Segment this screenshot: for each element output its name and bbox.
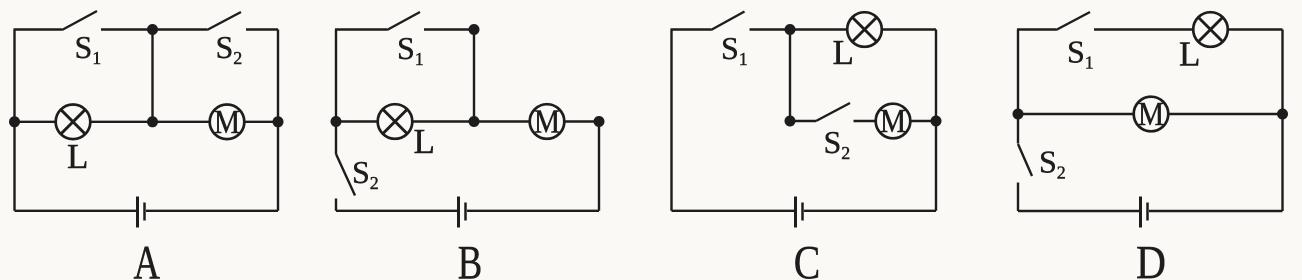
lamp L (D) — [1193, 12, 1228, 47]
wire center column C — [789, 30, 791, 122]
svg-text:M: M — [214, 104, 240, 141]
lamp L cross stroke 2 (B) — [383, 109, 408, 134]
battery short plate (C) — [801, 203, 804, 221]
wire top segment C1 — [671, 28, 712, 30]
wire top segment A2 — [101, 28, 207, 30]
svg-text:S1: S1 — [721, 30, 748, 69]
wire left rail A — [13, 30, 15, 211]
wire middle row B — [336, 120, 599, 122]
wire top segment C2 — [750, 28, 937, 30]
wire top segment D2 — [1094, 28, 1283, 30]
lamp L cross stroke 2 (A) — [61, 110, 86, 135]
motor M circle (B) — [530, 104, 565, 139]
wire bottom stub B — [335, 199, 337, 211]
svg-text:S2: S2 — [216, 29, 243, 68]
wire bottom stub D — [1017, 183, 1019, 212]
lamp L cross stroke 2 (C) — [852, 17, 877, 42]
node: top junction A — [147, 24, 158, 35]
node: top right B — [469, 24, 480, 35]
switch S1 blade (B) — [387, 12, 420, 30]
lamp L (A) — [56, 105, 91, 140]
svg-text:D: D — [1136, 238, 1166, 280]
wire center column A — [151, 30, 153, 122]
lamp L cross stroke 2 (D) — [1198, 17, 1223, 42]
wire bottom segment A1 — [15, 210, 137, 212]
wire middle row A — [15, 121, 279, 123]
wire bottom segment D2 — [1149, 210, 1283, 212]
switch S1 blade (C) — [711, 12, 745, 31]
wire right rail B — [598, 122, 600, 211]
switch S1 blade (A) — [62, 11, 97, 30]
node: left middle D — [1013, 109, 1024, 120]
node: left middle B — [331, 116, 342, 127]
wire middle row D — [1018, 113, 1283, 115]
svg-text:S2: S2 — [824, 124, 851, 163]
svg-text:M: M — [880, 103, 906, 140]
node: middle junction B — [469, 116, 480, 127]
switch S2 blade (D) — [1018, 144, 1032, 176]
node: left middle A — [9, 116, 20, 127]
wire right rail A — [277, 30, 279, 211]
lamp L (B) — [378, 104, 413, 139]
wire top segment A3 — [246, 28, 278, 30]
battery short plate (D) — [1146, 203, 1149, 221]
node: top junction C — [785, 24, 796, 35]
wire top segment B2 — [424, 28, 474, 30]
svg-text:L: L — [67, 137, 88, 176]
svg-text:B: B — [458, 238, 483, 280]
wire top segment B1 — [335, 28, 387, 30]
svg-text:M: M — [1138, 96, 1164, 133]
wire left rail top D — [1017, 30, 1019, 115]
node: right middle D — [1277, 109, 1288, 120]
wire bottom segment C2 — [804, 210, 936, 212]
switch S2 blade (B) — [336, 154, 355, 196]
battery short plate (B) — [464, 203, 467, 221]
switch S2 blade (A) — [207, 12, 241, 30]
wire left rail C — [670, 30, 672, 211]
switch S1 blade (D) — [1056, 12, 1090, 30]
wire left rail top B — [335, 30, 337, 122]
svg-text:S1: S1 — [397, 30, 424, 69]
node: middle junction A — [147, 116, 158, 127]
battery long plate (B) — [457, 197, 460, 228]
motor M circle (C) — [876, 104, 911, 139]
node: right middle C — [931, 116, 942, 127]
motor M circle (D) — [1134, 97, 1169, 132]
battery long plate (A) — [136, 197, 139, 228]
node: right middle A — [273, 116, 284, 127]
svg-text:S1: S1 — [75, 29, 102, 68]
svg-text:M: M — [534, 104, 560, 141]
motor M circle (A) — [210, 105, 245, 140]
wire middle segment C2 — [854, 120, 937, 122]
lamp L cross stroke 1 (D) — [1198, 17, 1223, 42]
lamp L cross stroke 1 (B) — [383, 109, 408, 134]
lamp L (C) — [847, 12, 882, 47]
wire left rail below dot B — [335, 122, 337, 155]
svg-text:S2: S2 — [1039, 144, 1066, 183]
svg-text:A: A — [134, 238, 161, 280]
wire bottom segment A2 — [146, 210, 278, 212]
svg-text:C: C — [794, 238, 821, 280]
svg-text:S1: S1 — [1067, 34, 1094, 73]
svg-text:L: L — [833, 33, 854, 72]
battery long plate (C) — [794, 197, 797, 228]
wire top segment D1 — [1017, 28, 1056, 30]
wire right rail D — [1281, 30, 1283, 212]
battery long plate (D) — [1139, 197, 1142, 228]
wire right rail C — [935, 30, 937, 211]
wire left rail below dot D — [1017, 114, 1019, 144]
wire center column B — [473, 30, 475, 122]
svg-text:L: L — [414, 122, 435, 161]
lamp L cross stroke 1 (A) — [61, 110, 86, 135]
node: middle junction C — [785, 116, 796, 127]
switch S2 blade (C) — [816, 103, 850, 121]
wire bottom segment D1 — [1018, 210, 1139, 212]
wire bottom segment B1 — [336, 210, 457, 212]
wire top segment A1 — [14, 28, 63, 30]
svg-text:S2: S2 — [352, 154, 379, 193]
svg-text:L: L — [1179, 35, 1200, 74]
wire middle stub C — [790, 120, 816, 122]
node: right middle B — [594, 116, 605, 127]
battery short plate (A) — [143, 203, 146, 221]
lamp L cross stroke 1 (C) — [852, 17, 877, 42]
wire bottom segment C1 — [672, 210, 795, 212]
wire bottom segment B2 — [467, 210, 599, 212]
